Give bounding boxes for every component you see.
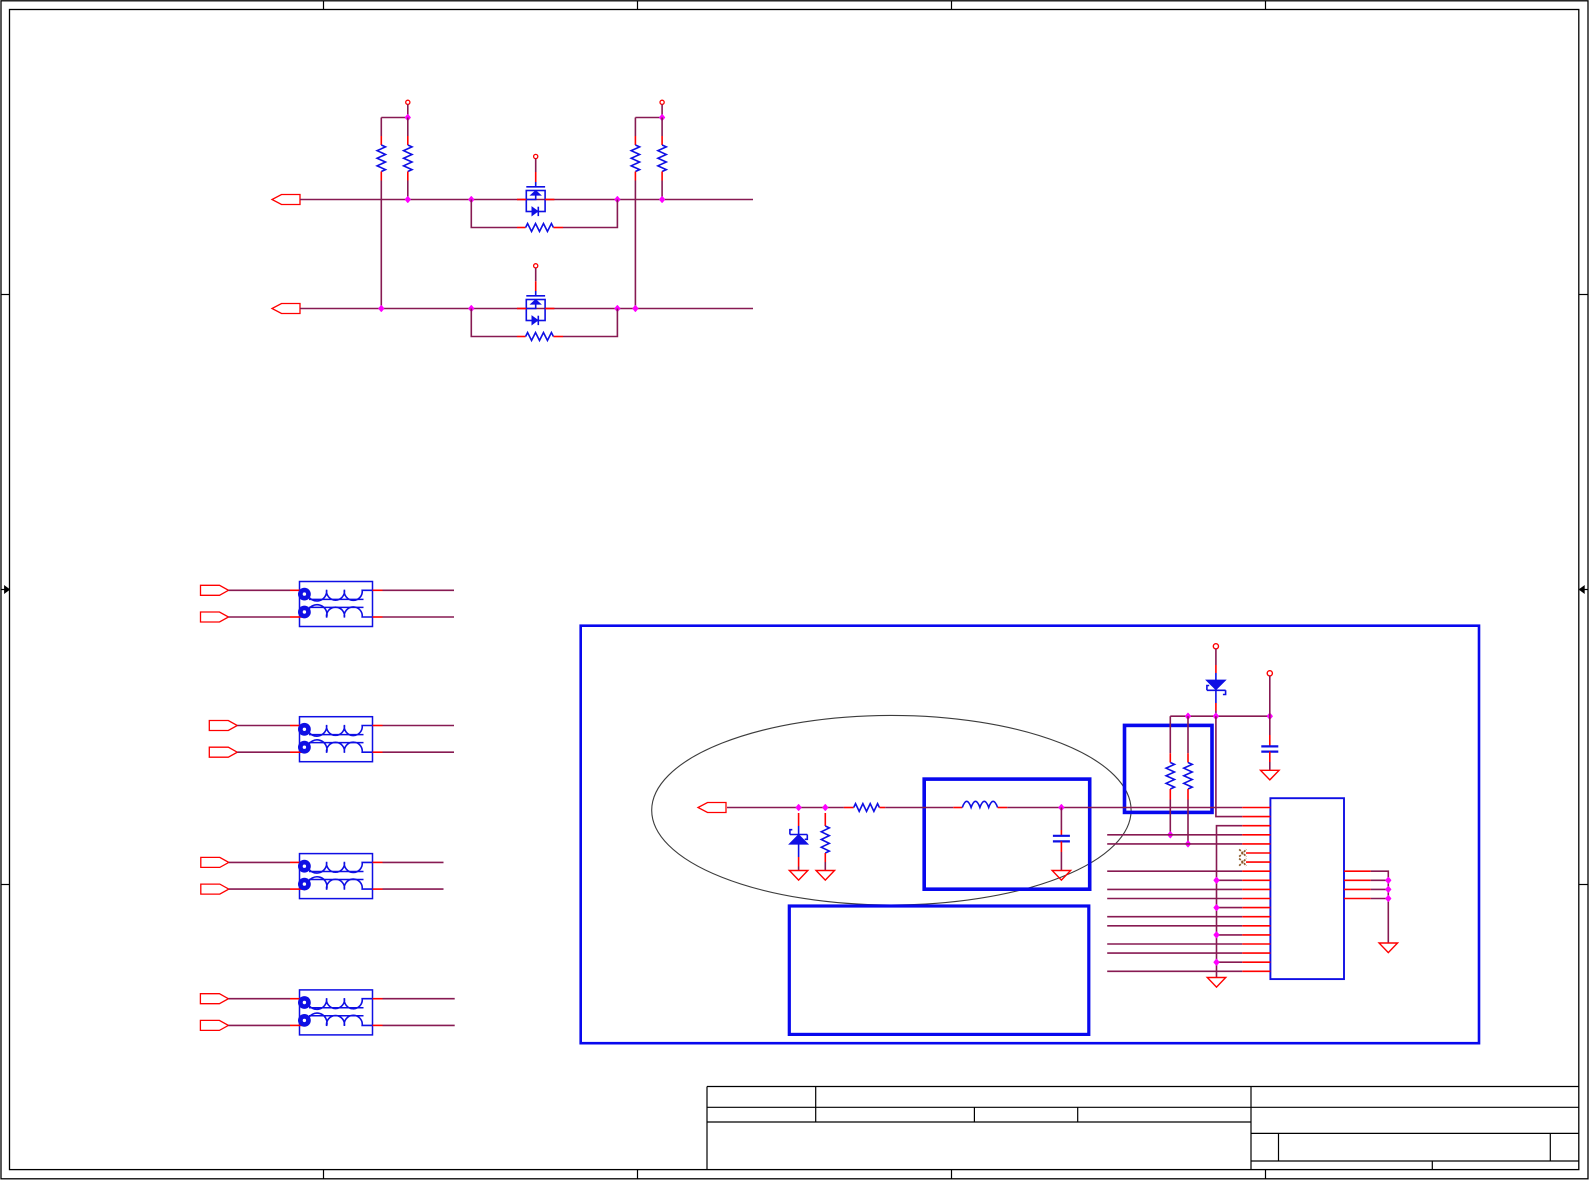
- ground bus wire (IC pins 3,9,12,15,18): [1217, 826, 1243, 978]
- wire to IC pin 5: [1107, 843, 1242, 845]
- gate terminal circle: [534, 154, 538, 158]
- IC pin 1 stub: [1242, 807, 1270, 809]
- MOSFET transistor: [517, 172, 554, 216]
- terminal circle (boot): [1213, 644, 1218, 649]
- ground: [1052, 871, 1071, 881]
- port choke input +: [200, 994, 228, 1004]
- wire choke output -: [383, 616, 455, 618]
- power-module outline box: [581, 626, 1479, 1043]
- IC pin 9 stub: [1242, 879, 1270, 881]
- port VIN: [698, 803, 726, 813]
- junction: [615, 306, 620, 312]
- gate terminal circle: [534, 264, 538, 268]
- junction: [660, 115, 665, 121]
- junction: [1214, 877, 1219, 883]
- IC pin 17 stub: [1242, 952, 1270, 954]
- IC pin 16 stub: [1242, 943, 1270, 945]
- ground: [1379, 943, 1398, 953]
- inductor L1: [953, 801, 1007, 807]
- common-mode choke (coupled inductors): [290, 990, 383, 1035]
- zener diode D2: [1206, 649, 1225, 717]
- junction: [1214, 959, 1219, 965]
- wire choke output +: [383, 725, 455, 727]
- feedback resistor RV2: [1184, 716, 1192, 844]
- IC pin 2 stub: [1242, 816, 1270, 818]
- capacitor C2: [1261, 716, 1278, 770]
- junction: [1214, 932, 1219, 938]
- port choke input -: [209, 747, 237, 757]
- capacitor C1: [1053, 808, 1070, 871]
- wire boot net to IC pin 2: [1216, 716, 1242, 816]
- wire to IC pin 14: [1107, 925, 1242, 927]
- common-mode choke (coupled inductors): [290, 717, 383, 762]
- IC pin 3 stub: [1242, 825, 1270, 827]
- junction: [1386, 896, 1391, 902]
- wire net A horizontal: [300, 199, 753, 201]
- junction: [1267, 713, 1272, 719]
- wire left resistor to net B: [634, 181, 636, 309]
- wire choke output -: [383, 1024, 455, 1026]
- wire parallel resistor path: [471, 309, 617, 337]
- wire port to choke -: [228, 1024, 290, 1026]
- junction: [1186, 713, 1191, 719]
- wire parallel resistor path: [471, 200, 617, 228]
- IC pin 19 stub: [1242, 970, 1270, 972]
- wire port to choke +: [228, 998, 290, 1000]
- IC pin 13 stub: [1242, 916, 1270, 918]
- wire VIN to series resistor: [727, 807, 844, 809]
- feedback resistors thick box: [1125, 725, 1213, 812]
- wire port to choke -: [237, 751, 290, 753]
- wire junction horizontal: [381, 117, 408, 119]
- wire port to choke +: [229, 589, 291, 591]
- junction: [1386, 887, 1391, 893]
- IC pin 8 stub: [1242, 870, 1270, 872]
- resistor (left of pair, x=381.3): [377, 118, 385, 181]
- IC regulator box: [1270, 798, 1344, 979]
- LC filter thick box: [924, 779, 1089, 889]
- junction: [1214, 905, 1219, 911]
- wire choke output +: [383, 861, 444, 863]
- wire to IC pin 4: [1107, 834, 1242, 836]
- zener diode clamp: [789, 813, 808, 871]
- port choke input +: [201, 585, 229, 595]
- IC pin 7 no-connect stub: [1246, 861, 1270, 863]
- junction: [1213, 713, 1218, 719]
- wire to IC pin 10: [1107, 888, 1242, 890]
- resistor (left of pair, x=635.4): [631, 118, 639, 181]
- IC pin 14 stub: [1242, 925, 1270, 927]
- junction: [796, 805, 801, 811]
- wire resistor to inductor: [885, 807, 953, 809]
- wire right pins to ground: [1371, 871, 1389, 943]
- bottom thick box: [789, 906, 1089, 1034]
- wire port to choke -: [229, 616, 291, 618]
- series resistor on VIN: [844, 804, 885, 812]
- junction on net B: [633, 306, 638, 312]
- resistor (right of pair, x=662.1): [658, 118, 666, 181]
- wire to IC pin 16: [1107, 943, 1242, 945]
- IC pin 18 stub: [1242, 961, 1270, 963]
- wire choke output +: [383, 589, 455, 591]
- wire gate: [535, 268, 537, 281]
- wire to IC pin 17: [1107, 952, 1242, 954]
- IC pin 12 stub: [1242, 907, 1270, 909]
- wire gate: [535, 159, 537, 172]
- IC pin 6 no-connect stub: [1246, 852, 1270, 854]
- resistor to ground: [821, 813, 829, 871]
- wire right resistor to net A: [407, 181, 409, 200]
- resistor parallel to MOSFET: [517, 224, 563, 232]
- IC pin 5 stub: [1242, 843, 1270, 845]
- port input B: [272, 304, 300, 314]
- wire choke output -: [383, 888, 444, 890]
- title block: [707, 1087, 1579, 1170]
- port input A: [272, 195, 300, 205]
- resistor (right of pair, x=407.8): [404, 118, 412, 181]
- feedback resistor RV1: [1166, 716, 1174, 835]
- pull-up terminal circle: [406, 100, 410, 104]
- port choke input -: [200, 1020, 228, 1030]
- port choke input -: [201, 612, 229, 622]
- IC pin 4 stub: [1242, 834, 1270, 836]
- wire upper net horizontal: [1170, 715, 1270, 717]
- pull-up terminal circle: [660, 100, 664, 104]
- wire right resistor to net A: [661, 181, 663, 200]
- resistor parallel to MOSFET: [517, 333, 563, 341]
- wire to IC pin 19: [1107, 970, 1242, 972]
- wire junction horizontal: [635, 117, 662, 119]
- wire port to choke +: [229, 861, 290, 863]
- junction: [405, 115, 410, 121]
- wire VCC to junction: [1269, 676, 1271, 717]
- no-connect X pin 7: [1239, 859, 1246, 866]
- wire terminal to junction: [661, 104, 663, 117]
- junction on net A: [405, 197, 410, 203]
- junction: [1386, 877, 1391, 883]
- port choke input +: [201, 857, 229, 867]
- common-mode choke (coupled inductors): [290, 854, 383, 899]
- right middle arrow: [1579, 586, 1588, 593]
- wire port to choke -: [229, 888, 290, 890]
- wire net B horizontal: [300, 308, 753, 310]
- junction on net B: [379, 306, 384, 312]
- junction: [469, 306, 474, 312]
- junction: [469, 197, 474, 203]
- wire to IC pin 11: [1107, 898, 1242, 900]
- wire inductor to IC pin 1: [1007, 807, 1242, 809]
- wire port to choke +: [237, 725, 290, 727]
- junction on net A: [660, 197, 665, 203]
- IC pin 10 stub: [1242, 888, 1270, 890]
- junction: [1059, 805, 1064, 811]
- IC pin 11 stub: [1242, 898, 1270, 900]
- wire choke output +: [383, 998, 455, 1000]
- ground: [1207, 978, 1226, 988]
- no-connect X pin 6: [1239, 849, 1246, 856]
- IC right pin stubs: [1344, 871, 1371, 898]
- junction: [615, 197, 620, 203]
- wire terminal to junction: [407, 104, 409, 117]
- wire left resistor to net B: [380, 181, 382, 309]
- highlight ellipse: [652, 715, 1131, 905]
- wire to IC pin 13: [1107, 916, 1242, 918]
- junction: [823, 805, 828, 811]
- common-mode choke (coupled inductors): [290, 582, 383, 627]
- wire to IC pin 8: [1107, 870, 1242, 872]
- wire choke output -: [383, 751, 455, 753]
- ground: [1261, 770, 1280, 780]
- ground: [789, 871, 808, 881]
- terminal circle (VCC): [1267, 671, 1272, 676]
- junction: [1168, 832, 1173, 838]
- junction: [1186, 841, 1191, 847]
- ground: [816, 871, 835, 881]
- left middle arrow: [1, 586, 10, 593]
- IC pin 15 stub: [1242, 934, 1270, 936]
- port choke input +: [209, 721, 237, 731]
- MOSFET transistor: [517, 281, 554, 325]
- port choke input -: [201, 884, 229, 894]
